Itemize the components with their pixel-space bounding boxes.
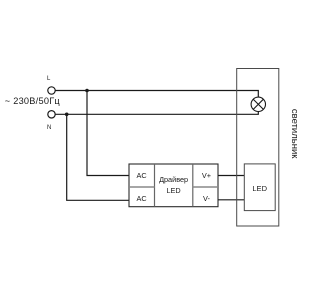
svg-text:AC: AC	[137, 171, 147, 180]
svg-text:L: L	[47, 76, 51, 82]
svg-text:Драйвер: Драйвер	[159, 175, 188, 184]
svg-text:V-: V-	[203, 194, 210, 203]
svg-text:LED: LED	[252, 184, 267, 193]
wire V- to LED module	[218, 199, 244, 201]
svg-text:N: N	[47, 125, 51, 131]
LED driver outer box	[129, 164, 218, 207]
LED module box	[244, 164, 275, 211]
svg-text:AC: AC	[137, 194, 147, 203]
junction on L wire	[85, 89, 89, 93]
terminal N	[47, 111, 55, 131]
svg-text:светильник: светильник	[289, 109, 300, 159]
driver cell divider horizontal right	[193, 186, 218, 188]
driver cell divider vertical left	[154, 164, 156, 207]
lamp symbol (circle with X)	[251, 97, 265, 111]
luminaire enclosure box	[237, 69, 279, 227]
junction on N wire	[65, 113, 69, 117]
svg-text:~ 230В/50Гц: ~ 230В/50Гц	[5, 96, 61, 106]
wire L (phase) to lamp	[55, 91, 258, 98]
wire from L junction to driver AC input 1	[87, 91, 129, 176]
terminal L	[47, 76, 55, 94]
wire V+ to LED module	[218, 175, 244, 177]
wire N (neutral) to lamp	[55, 111, 258, 114]
svg-text:LED: LED	[166, 186, 180, 195]
svg-text:V+: V+	[202, 171, 211, 180]
driver cell divider horizontal left	[129, 186, 155, 188]
wire from N junction to driver AC input 2	[67, 114, 129, 200]
driver name label	[159, 175, 188, 195]
driver cell divider vertical right	[192, 164, 194, 207]
